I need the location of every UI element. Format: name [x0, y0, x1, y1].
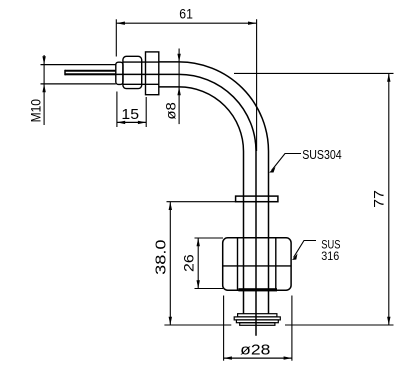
dimension o28 line [224, 356, 292, 359]
tube outer line (bend) [159, 62, 269, 314]
nut left cap [116, 62, 123, 84]
washer flange [146, 52, 159, 95]
dimension o8 line [177, 49, 180, 125]
stopper plate stack [234, 314, 280, 326]
wire: 15 left extension line [116, 92, 118, 128]
label SUS316 [321, 239, 340, 263]
wire: 15 right extension line [145, 97, 147, 127]
wire: 61 right extension line (tube centerline up) [256, 19, 258, 151]
svg-text:15: 15 [121, 106, 139, 123]
dimension 77 line [387, 73, 390, 325]
wire: o28 right extension line [291, 296, 293, 361]
leader SUS304 [269, 154, 301, 173]
svg-text:ø28: ø28 [240, 342, 270, 359]
dimension 38.0 line [169, 202, 172, 325]
svg-text:316: 316 [321, 251, 339, 263]
hex nut [123, 56, 159, 88]
collar stop ring [236, 196, 278, 202]
svg-text:ø8: ø8 [162, 102, 178, 120]
dimension 61 line [116, 22, 256, 25]
wire: 61 left extension line [115, 19, 117, 56]
wire: M10 top extension line [41, 64, 116, 66]
svg-text:77: 77 [371, 190, 387, 208]
wire: 26 top extension line [195, 237, 224, 239]
dimension 26 line [197, 238, 200, 289]
wire: 77 bottom extension line [285, 324, 394, 326]
wire: 26 bottom extension line [195, 288, 224, 290]
svg-text:38.0: 38.0 [152, 240, 169, 275]
wire: M10 bottom extension line [41, 83, 116, 85]
dimension M10 line [42, 55, 45, 125]
dimension 15 line [117, 121, 146, 124]
svg-text:61: 61 [179, 6, 193, 22]
wire: 38.0 bottom extension line [164, 324, 231, 326]
tube center line (bend) [65, 74, 256, 335]
wire: 38.0 top extension line [167, 201, 237, 203]
wire: 77 top extension line [234, 72, 394, 74]
rod (threaded stud) [65, 70, 116, 76]
leader SUS316 [292, 241, 316, 261]
float body [223, 238, 291, 292]
wire: o28 left extension line [223, 296, 225, 361]
svg-text:26: 26 [181, 254, 197, 272]
svg-text:SUS: SUS [321, 239, 340, 251]
svg-text:M10: M10 [28, 99, 44, 122]
tube inner line (bend) [159, 87, 244, 314]
svg-text:SUS304: SUS304 [302, 147, 342, 162]
